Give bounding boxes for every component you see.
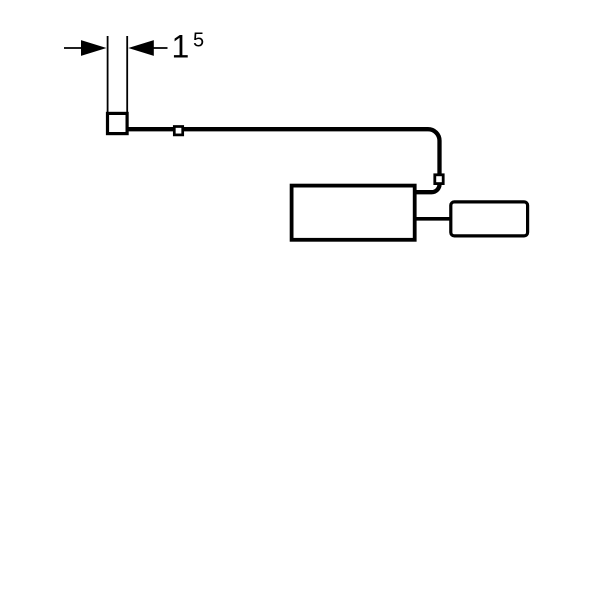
- junction box (flush-mounted box): [108, 113, 128, 133]
- wire: cable tail below plug into control unit: [414, 183, 440, 192]
- control unit (large box): [292, 186, 415, 240]
- conduit line right: [126, 36, 128, 113]
- wire: control unit to power supply: [414, 217, 451, 221]
- power supply (small rounded box): [451, 202, 528, 236]
- dimension arrow right: [128, 40, 167, 56]
- connector plug at control unit: [435, 175, 443, 184]
- connector plug on cable (inline): [174, 127, 182, 135]
- svg-text:5: 5: [193, 30, 204, 52]
- dimension arrow left: [64, 40, 107, 56]
- conduit line left: [107, 36, 109, 113]
- wire: cable from junction box to control unit: [127, 129, 440, 176]
- svg-text:1: 1: [172, 29, 190, 65]
